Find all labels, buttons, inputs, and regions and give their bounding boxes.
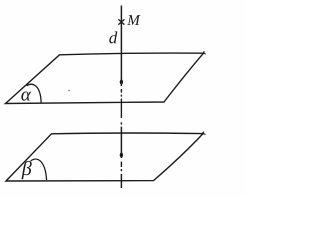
dash-dot axis: dash <box>120 89 122 93</box>
label M <box>127 15 140 25</box>
dot <box>120 122 122 124</box>
line through planes: upper solid segment <box>120 6 122 87</box>
dash <box>120 162 122 168</box>
intersection dot with plane beta <box>120 153 123 158</box>
long dash crossing alpha bottom edge <box>120 99 122 118</box>
dash crossing beta bottom edge <box>120 174 122 188</box>
plane alpha (upper parallelogram) <box>6 51 206 103</box>
dot <box>120 169 122 171</box>
label alpha <box>21 92 31 101</box>
angle arc alpha <box>27 84 42 103</box>
point M cross marker <box>118 19 124 24</box>
long dash crossing beta top edge <box>120 127 122 158</box>
label beta <box>21 161 31 179</box>
stray scan speck <box>68 90 70 92</box>
angle arc beta <box>31 159 47 180</box>
dot <box>120 95 122 97</box>
intersection dot with plane alpha <box>120 80 123 85</box>
label d <box>109 31 117 43</box>
plane beta (lower parallelogram) <box>6 132 206 181</box>
